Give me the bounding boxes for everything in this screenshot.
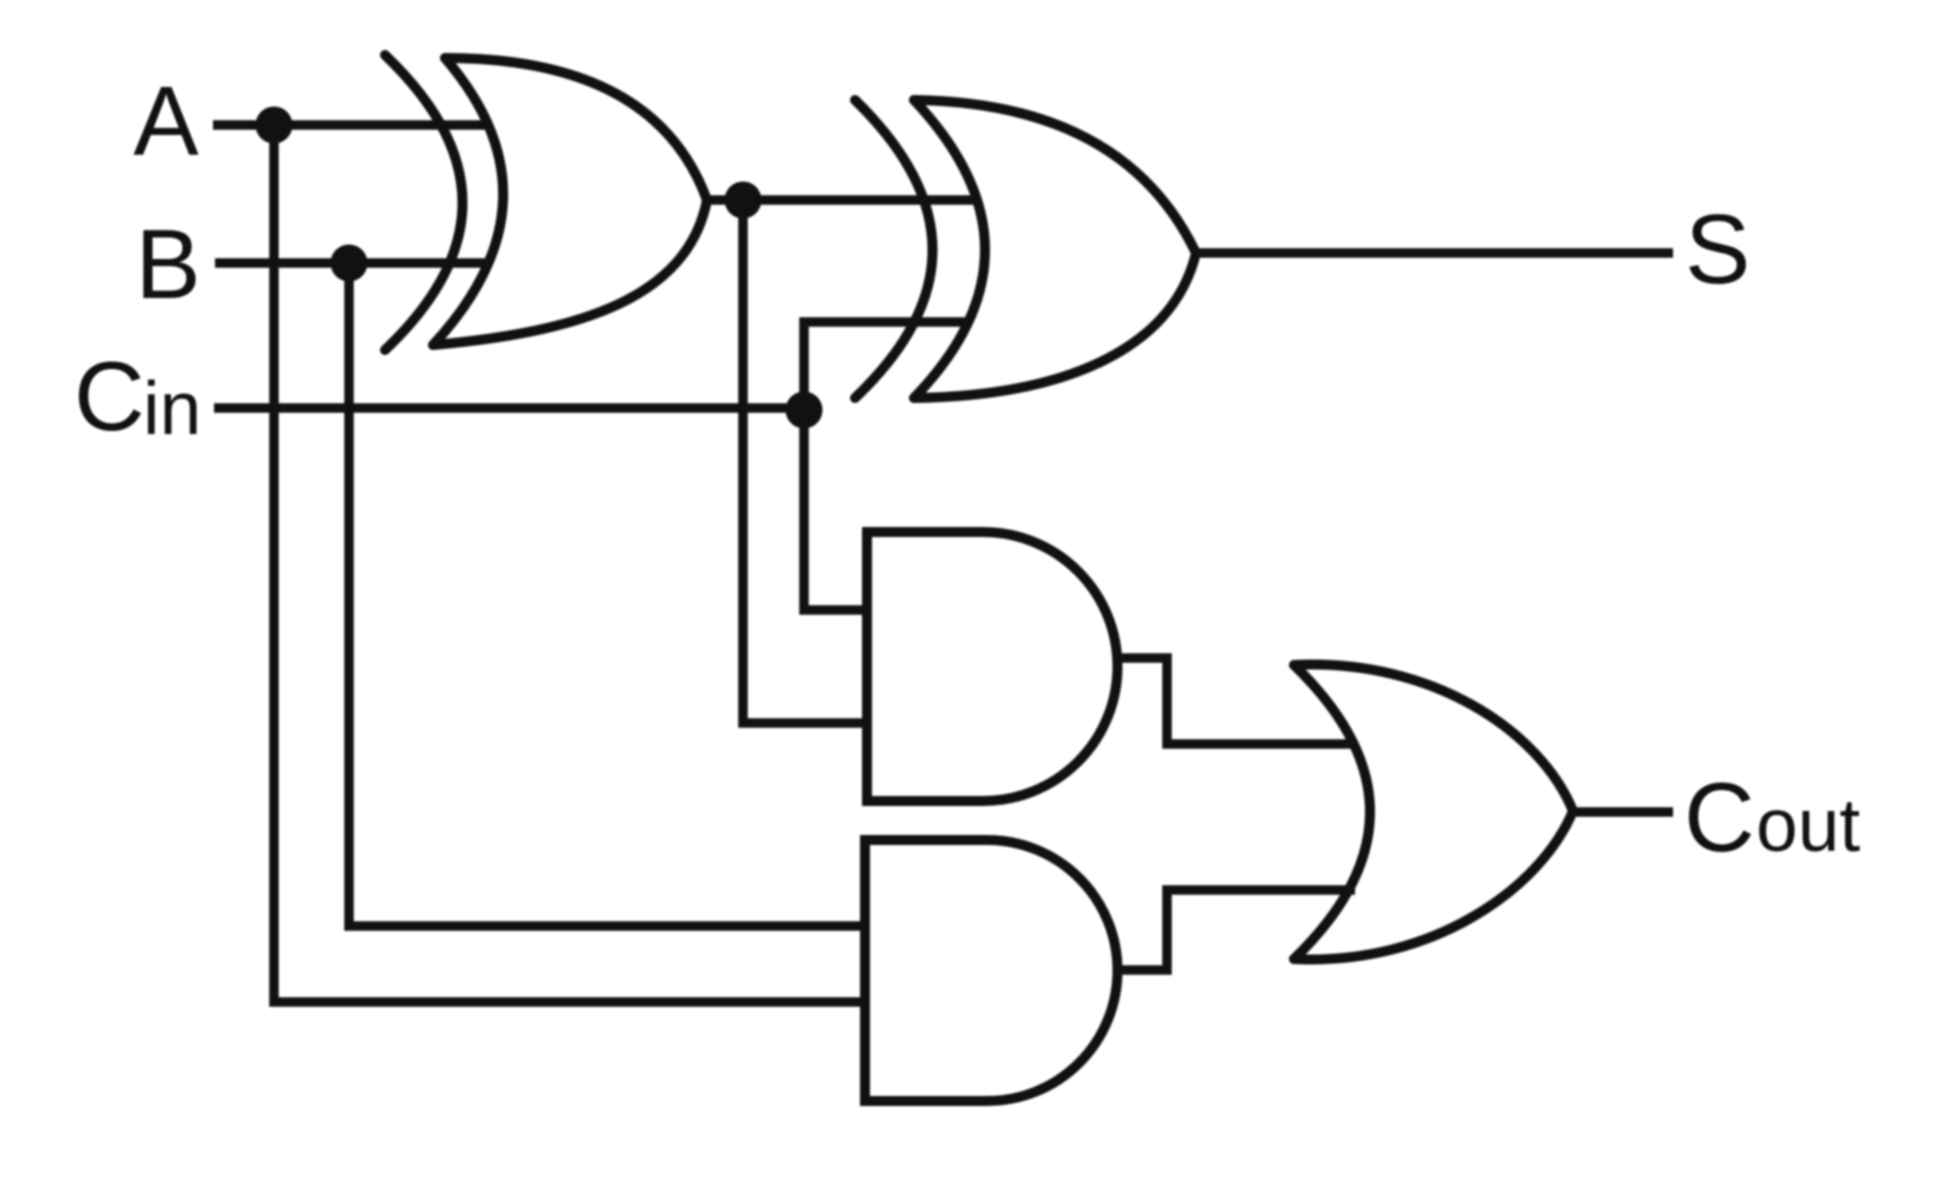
svg-text:out: out [1756, 783, 1860, 867]
svg-text:A: A [133, 66, 199, 176]
svg-text:in: in [143, 366, 201, 450]
svg-text:C: C [1684, 762, 1755, 872]
svg-text:B: B [135, 209, 200, 319]
svg-text:S: S [1685, 194, 1750, 304]
svg-text:C: C [74, 341, 145, 451]
